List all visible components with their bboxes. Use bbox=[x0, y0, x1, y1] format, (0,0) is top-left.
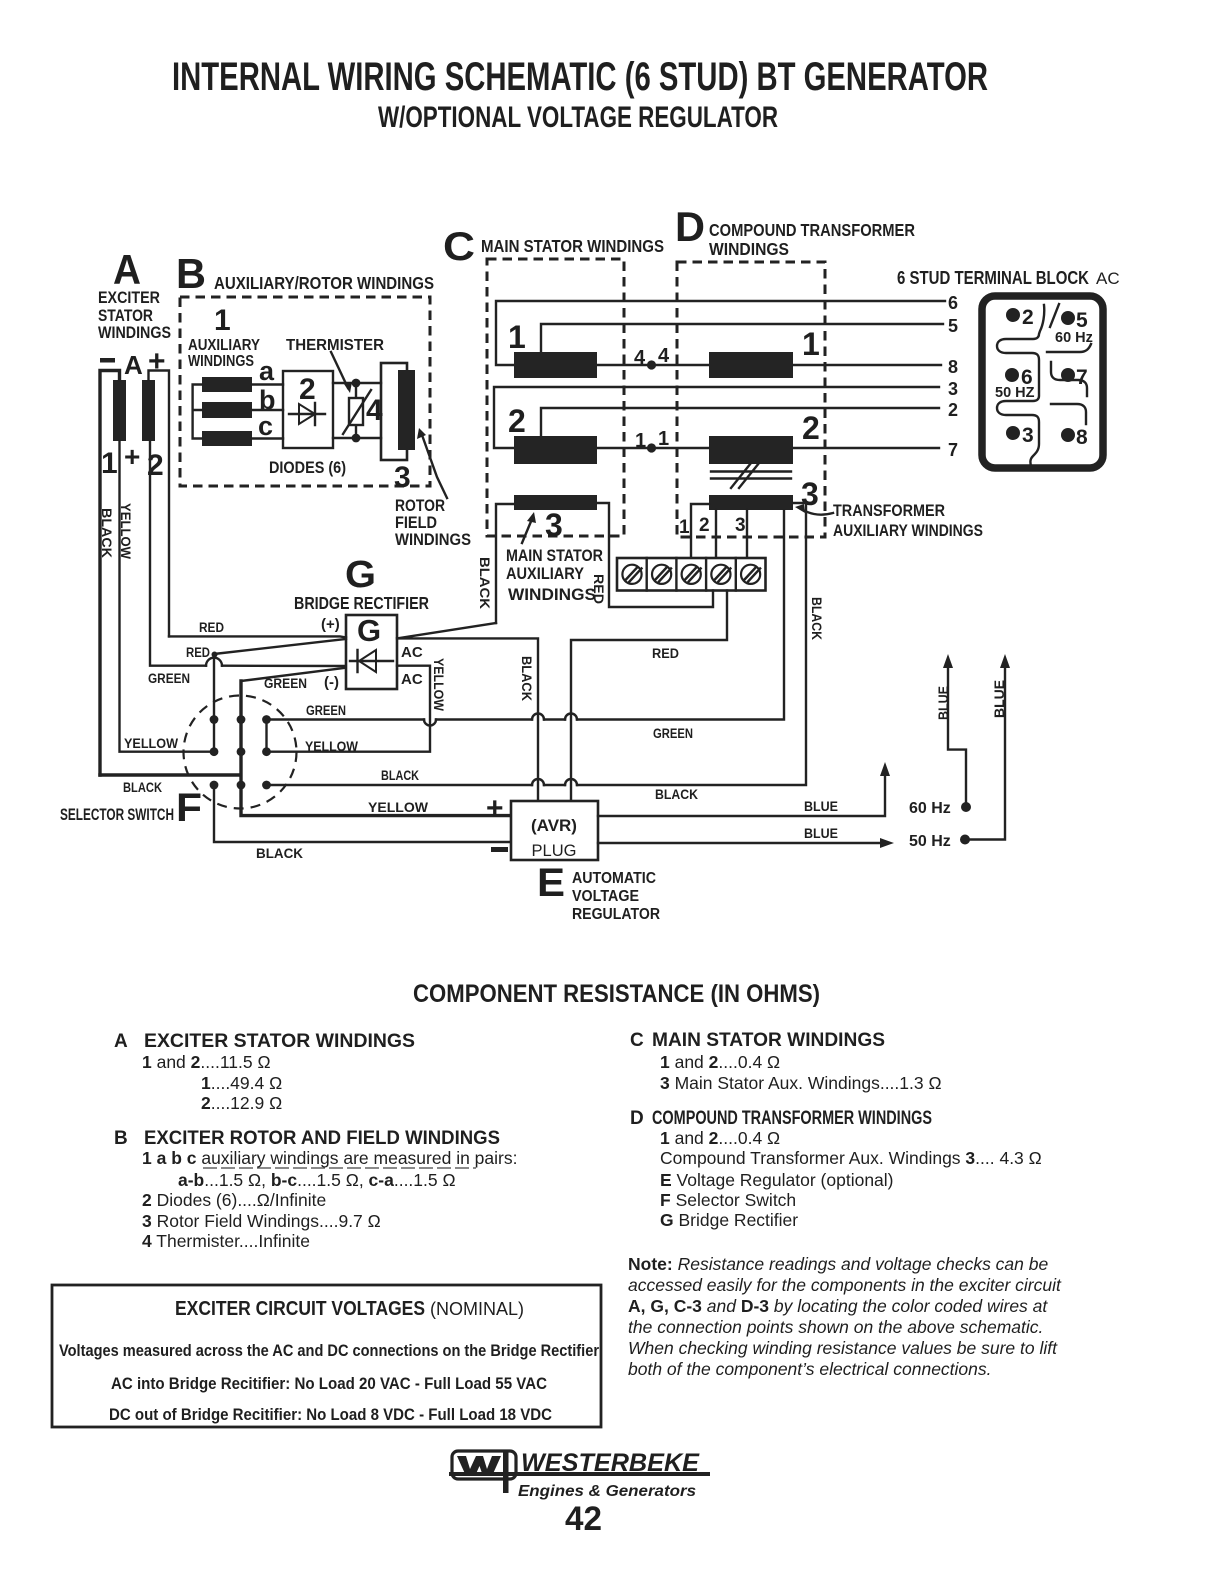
svg-text:YELLOW: YELLOW bbox=[368, 800, 428, 815]
svg-text:D: D bbox=[675, 203, 705, 250]
switch col2 vertical through to AVR plus bbox=[241, 681, 511, 816]
svg-text:BLUE: BLUE bbox=[936, 686, 951, 720]
hop on green wire at x214 bbox=[206, 658, 222, 666]
wire red from C aux right end to strip cell4 bbox=[597, 503, 713, 607]
svg-text:c: c bbox=[258, 411, 273, 441]
svg-text:4: 4 bbox=[658, 345, 670, 367]
svg-text:+: + bbox=[486, 792, 504, 825]
label EXCITER STATOR WINDINGS bbox=[98, 288, 171, 342]
svg-text:AUTOMATIC: AUTOMATIC bbox=[572, 870, 656, 887]
svg-text:PLUG: PLUG bbox=[532, 842, 577, 860]
junction node 4 bbox=[647, 360, 656, 369]
rotor field windings pointer arrow bbox=[422, 435, 447, 498]
svg-text:60 Hz: 60 Hz bbox=[1055, 330, 1093, 346]
svg-text:a-b...1.5 Ω, b-c....1.5 Ω, c-: a-b...1.5 Ω, b-c....1.5 Ω, c-a....1.5 Ω bbox=[178, 1170, 456, 1190]
terminal block channel right branches bbox=[1047, 344, 1091, 352]
wire 8 bbox=[597, 364, 941, 366]
svg-text:AUXILIARY: AUXILIARY bbox=[506, 565, 584, 583]
terminal strip dividers bbox=[647, 558, 736, 591]
main stator aux pointer arrow bbox=[522, 519, 532, 543]
bridge rectifier U box bbox=[346, 615, 397, 689]
svg-text:42: 42 bbox=[565, 1500, 602, 1538]
svg-text:5: 5 bbox=[1076, 309, 1088, 332]
svg-text:BLACK: BLACK bbox=[655, 787, 698, 802]
svg-text:60 Hz: 60 Hz bbox=[909, 800, 951, 817]
svg-text:a: a bbox=[259, 356, 275, 386]
svg-text:A: A bbox=[124, 350, 143, 380]
D3 stub 1 bbox=[691, 504, 709, 558]
svg-text:1: 1 bbox=[679, 517, 690, 538]
note paragraph bbox=[628, 1254, 1062, 1379]
svg-text:4 Thermister....Infinite: 4 Thermister....Infinite bbox=[142, 1231, 310, 1251]
svg-text:3: 3 bbox=[394, 461, 411, 494]
wire yellow from winding1 bottom bbox=[120, 441, 211, 752]
svg-text:C: C bbox=[630, 1030, 644, 1051]
svg-text:AUXILIARY WINDINGS: AUXILIARY WINDINGS bbox=[833, 522, 983, 540]
svg-text:2: 2 bbox=[948, 400, 958, 420]
svg-text:F Selector Switch: F Selector Switch bbox=[660, 1190, 796, 1210]
svg-text:AUXILIARY/ROTOR WINDINGS: AUXILIARY/ROTOR WINDINGS bbox=[214, 273, 434, 293]
node 50Hz bbox=[960, 835, 970, 845]
svg-text:MAIN STATOR: MAIN STATOR bbox=[506, 547, 603, 565]
svg-text:MAIN STATOR WINDINGS: MAIN STATOR WINDINGS bbox=[481, 236, 664, 256]
wire red vertical to switch top-left bbox=[213, 654, 215, 719]
transformer core symbol bbox=[711, 472, 791, 479]
bridge diode symbol bbox=[350, 650, 393, 672]
svg-text:BLUE: BLUE bbox=[804, 799, 838, 814]
transformer aux pointer arrow bbox=[801, 509, 833, 515]
wire black from switch bottom-left to AVR minus bbox=[214, 785, 511, 842]
svg-text:Note: Resistance readings and: Note: Resistance readings and voltage ch… bbox=[628, 1254, 1048, 1274]
svg-text:G Bridge Rectifier: G Bridge Rectifier bbox=[660, 1210, 798, 1230]
wire yellow row from switch col3 to bridge AC2 bbox=[267, 666, 431, 752]
svg-text:REGULATOR: REGULATOR bbox=[572, 906, 660, 923]
svg-text:E: E bbox=[537, 861, 565, 905]
svg-text:6: 6 bbox=[948, 293, 958, 313]
svg-text:(AVR): (AVR) bbox=[531, 816, 577, 835]
svg-text:COMPONENT RESISTANCE (IN OHMS): COMPONENT RESISTANCE (IN OHMS) bbox=[413, 980, 820, 1008]
svg-text:BRIDGE RECTIFIER: BRIDGE RECTIFIER bbox=[294, 593, 429, 613]
svg-text:the connection points shown on: the connection points shown on the above… bbox=[628, 1317, 1043, 1337]
wire bridge AC1 to black vertical and C aux bbox=[397, 623, 538, 801]
svg-text:1 and 2....11.5 Ω: 1 and 2....11.5 Ω bbox=[142, 1052, 271, 1072]
svg-text:C: C bbox=[443, 225, 475, 269]
svg-text:8: 8 bbox=[948, 357, 958, 377]
svg-text:EXCITER CIRCUIT VOLTAGES (NOMI: EXCITER CIRCUIT VOLTAGES (NOMINAL) bbox=[175, 1298, 524, 1320]
stud 6 bbox=[1005, 368, 1019, 382]
svg-text:(+): (+) bbox=[321, 616, 340, 633]
wire green from winding2 bottom bbox=[150, 441, 346, 666]
wires diode box to thermistor and rotor bbox=[333, 383, 381, 438]
auxiliary winding c bar bbox=[202, 431, 252, 446]
node 60Hz bbox=[961, 802, 971, 812]
wire red horizontal into bridge plus bbox=[169, 636, 346, 637]
terminal block channel meander bbox=[997, 305, 1044, 466]
terminal strip box bbox=[617, 558, 766, 591]
auxiliary winding a bar bbox=[202, 377, 252, 392]
AVR plug box bbox=[511, 801, 598, 860]
svg-text:RED: RED bbox=[652, 646, 679, 661]
svg-text:COMPOUND TRANSFORMER WINDINGS: COMPOUND TRANSFORMER WINDINGS bbox=[652, 1108, 932, 1129]
selector switch dashed circle bbox=[184, 696, 297, 809]
junction red bbox=[212, 652, 218, 658]
switch col1 segment bbox=[213, 720, 215, 752]
rotor field winding bar bbox=[398, 370, 415, 450]
svg-text:W/OPTIONAL VOLTAGE REGULATOR: W/OPTIONAL VOLTAGE REGULATOR bbox=[378, 101, 778, 134]
switch col3 segment bbox=[265, 720, 267, 752]
svg-text:8: 8 bbox=[1076, 426, 1088, 449]
main stator winding 2 bar bbox=[514, 436, 597, 464]
logo W glyph bbox=[457, 1456, 501, 1476]
stud 5 bbox=[1061, 311, 1075, 325]
svg-text:BLACK: BLACK bbox=[477, 557, 492, 609]
svg-text:WINDINGS: WINDINGS bbox=[98, 323, 171, 342]
screw 5 bbox=[741, 565, 760, 584]
svg-text:EXCITER STATOR WINDINGS: EXCITER STATOR WINDINGS bbox=[144, 1031, 415, 1052]
svg-text:BLACK: BLACK bbox=[256, 846, 303, 861]
svg-text:accessed easily for the compon: accessed easily for the components in th… bbox=[628, 1275, 1062, 1295]
svg-text:2: 2 bbox=[802, 410, 820, 446]
svg-text:RED: RED bbox=[199, 620, 224, 635]
svg-text:both of the component’s electr: both of the component’s electrical conne… bbox=[628, 1359, 992, 1379]
minus terminal label bbox=[100, 358, 115, 363]
wire 6 bbox=[496, 301, 945, 365]
svg-text:50 HZ: 50 HZ bbox=[995, 385, 1035, 401]
thermistor node bottom bbox=[352, 434, 361, 443]
exciter stator winding 1 (left bar) bbox=[113, 380, 126, 441]
svg-text:BLACK: BLACK bbox=[381, 768, 419, 783]
diode box (diodes 6) bbox=[283, 371, 333, 448]
wire blue 60Hz from AVR bbox=[598, 772, 885, 816]
hop black row at black vert bbox=[532, 779, 544, 785]
svg-text:4: 4 bbox=[634, 347, 646, 369]
wire black from C aux left end down bbox=[496, 504, 514, 623]
svg-text:D: D bbox=[630, 1108, 644, 1129]
D3 stub 2 bbox=[715, 510, 717, 558]
stud 8 bbox=[1061, 428, 1075, 442]
svg-text:GREEN: GREEN bbox=[148, 671, 190, 686]
B dashed box bbox=[180, 297, 430, 486]
svg-text:YELLOW: YELLOW bbox=[124, 736, 178, 751]
svg-text:GREEN: GREEN bbox=[306, 703, 346, 718]
svg-text:E Voltage Regulator (optional): E Voltage Regulator (optional) bbox=[660, 1170, 894, 1190]
thermistor diagonal strike bbox=[343, 390, 371, 434]
svg-text:1....49.4 Ω: 1....49.4 Ω bbox=[201, 1073, 282, 1093]
svg-text:+: + bbox=[148, 345, 166, 378]
hop green row at yellow vert bbox=[424, 720, 436, 726]
wire 2 bbox=[541, 408, 939, 436]
svg-text:DIODES (6): DIODES (6) bbox=[269, 459, 346, 477]
svg-text:COMPOUND TRANSFORMER: COMPOUND TRANSFORMER bbox=[709, 220, 915, 240]
screw 2 bbox=[652, 565, 671, 584]
svg-text:1: 1 bbox=[635, 430, 646, 452]
svg-text:1 a b c auxiliary windings are: 1 a b c auxiliary windings are measured … bbox=[142, 1148, 517, 1168]
screw 3 bbox=[682, 565, 701, 584]
main stator aux winding 3 bar bbox=[514, 495, 597, 510]
svg-text:YELLOW: YELLOW bbox=[118, 503, 133, 559]
rotor field winding bracket bbox=[381, 363, 407, 460]
svg-text:GREEN: GREEN bbox=[653, 726, 693, 741]
svg-text:6 STUD TERMINAL BLOCK: 6 STUD TERMINAL BLOCK bbox=[897, 268, 1089, 288]
svg-text:B: B bbox=[114, 1128, 128, 1149]
svg-text:G: G bbox=[345, 554, 376, 596]
svg-text:3 Rotor Field Windings....9.7: 3 Rotor Field Windings....9.7 Ω bbox=[142, 1211, 381, 1231]
compound transformer aux winding 3 bar bbox=[709, 495, 793, 510]
svg-text:ROTOR: ROTOR bbox=[395, 497, 445, 515]
label ROTOR FIELD WINDINGS bbox=[395, 497, 471, 549]
wire black from winding1 top staple down-left bbox=[100, 371, 120, 776]
compound transformer winding 1 bar bbox=[709, 352, 793, 378]
svg-text:1 and 2....0.4 Ω: 1 and 2....0.4 Ω bbox=[660, 1052, 780, 1072]
svg-text:BLUE: BLUE bbox=[992, 680, 1007, 718]
stud 3 bbox=[1006, 426, 1020, 440]
svg-text:+: + bbox=[124, 441, 140, 472]
label MAIN STATOR AUXILIARY WINDINGS bbox=[506, 547, 603, 604]
svg-text:2: 2 bbox=[1022, 306, 1034, 329]
westerbeke logo flag box bbox=[452, 1451, 516, 1479]
label AUTOMATIC VOLTAGE REGULATOR bbox=[572, 870, 660, 923]
svg-text:3: 3 bbox=[1022, 424, 1034, 447]
svg-text:YELLOW: YELLOW bbox=[431, 658, 446, 711]
svg-text:BLUE: BLUE bbox=[804, 826, 838, 841]
svg-text:(-): (-) bbox=[324, 674, 339, 691]
svg-text:A: A bbox=[114, 1031, 128, 1052]
terminal block body bbox=[982, 296, 1103, 468]
hop green row at red vert bbox=[565, 714, 577, 720]
svg-text:BLACK: BLACK bbox=[99, 508, 114, 558]
svg-text:AC: AC bbox=[1096, 269, 1120, 288]
left connector joining a b c bbox=[193, 385, 202, 439]
svg-text:2....12.9 Ω: 2....12.9 Ω bbox=[201, 1093, 282, 1113]
stud 2 bbox=[1006, 308, 1020, 322]
svg-text:2 Diodes (6)....Ω/Infinite: 2 Diodes (6)....Ω/Infinite bbox=[142, 1190, 326, 1210]
svg-text:When checking winding resistan: When checking winding resistance values … bbox=[628, 1338, 1058, 1358]
compound transformer winding 2 bar bbox=[709, 436, 793, 464]
diode symbol inside box bbox=[289, 403, 325, 425]
auxiliary winding b bar bbox=[202, 402, 252, 418]
svg-text:1: 1 bbox=[101, 447, 118, 480]
wire blue 50Hz from AVR bbox=[598, 842, 884, 844]
wire red staple from winding2 top bbox=[149, 371, 170, 637]
svg-text:50 Hz: 50 Hz bbox=[909, 833, 951, 850]
svg-text:3: 3 bbox=[735, 515, 746, 536]
svg-text:B: B bbox=[176, 250, 206, 297]
svg-text:3: 3 bbox=[948, 379, 958, 399]
svg-text:DC out of Bridge Recitifier:: DC out of Bridge Recitifier: No Load 8 V… bbox=[109, 1406, 552, 1424]
svg-text:3 Main Stator Aux. Windings...: 3 Main Stator Aux. Windings....1.3 Ω bbox=[660, 1073, 942, 1093]
svg-text:INTERNAL WIRING SCHEMATIC (6 S: INTERNAL WIRING SCHEMATIC (6 STUD) BT GE… bbox=[172, 55, 988, 99]
svg-text:1 and 2....0.4 Ω: 1 and 2....0.4 Ω bbox=[660, 1128, 780, 1148]
svg-text:7: 7 bbox=[948, 440, 958, 460]
wire black from A1 to switch col2 bbox=[100, 773, 239, 776]
svg-text:WINDINGS: WINDINGS bbox=[709, 239, 789, 259]
screw 4 bbox=[711, 565, 730, 584]
switch contact dots bbox=[210, 715, 219, 724]
D3 stub 3 bbox=[746, 510, 748, 558]
logo pole bbox=[503, 1451, 509, 1493]
svg-text:3: 3 bbox=[545, 507, 563, 543]
C dashed box bbox=[487, 259, 624, 536]
svg-text:Compound Transformer Aux. Wind: Compound Transformer Aux. Windings 3....… bbox=[660, 1148, 1042, 1168]
hop black row at red vert bbox=[565, 779, 577, 785]
svg-text:SELECTOR SWITCH: SELECTOR SWITCH bbox=[60, 806, 174, 824]
svg-text:YELLOW: YELLOW bbox=[305, 739, 358, 754]
svg-text:WINDINGS: WINDINGS bbox=[508, 586, 596, 604]
wire blue 50Hz up bbox=[965, 664, 1005, 840]
wire red diagonal from switch to bridge plus bbox=[214, 639, 346, 654]
svg-text:2: 2 bbox=[699, 515, 710, 536]
svg-text:Voltages measured across the A: Voltages measured across the AC and DC c… bbox=[59, 1342, 600, 1360]
svg-text:5: 5 bbox=[948, 316, 958, 336]
svg-text:1: 1 bbox=[214, 304, 231, 337]
svg-text:WINDINGS: WINDINGS bbox=[395, 531, 471, 549]
svg-text:MAIN STATOR WINDINGS: MAIN STATOR WINDINGS bbox=[652, 1030, 885, 1051]
wires a b c to diode box bbox=[252, 385, 283, 439]
exciter circuit voltages box bbox=[52, 1285, 601, 1427]
svg-text:FIELD: FIELD bbox=[395, 514, 437, 532]
hop green row at black vert bbox=[532, 714, 544, 720]
svg-text:AUXILIARY: AUXILIARY bbox=[188, 337, 260, 354]
svg-text:G: G bbox=[357, 613, 381, 648]
svg-text:TRANSFORMER: TRANSFORMER bbox=[833, 502, 945, 520]
thermistor node top bbox=[352, 379, 361, 388]
wire black row from switch col3 to D3 right bbox=[267, 503, 807, 785]
wire blue 60Hz up bbox=[948, 664, 966, 807]
svg-text:Engines & Generators: Engines & Generators bbox=[518, 1483, 696, 1500]
wire 5 bbox=[541, 324, 943, 353]
svg-text:1: 1 bbox=[802, 326, 820, 362]
svg-text:EXCITER: EXCITER bbox=[98, 288, 160, 307]
svg-text:A: A bbox=[113, 246, 141, 293]
svg-text:BLACK: BLACK bbox=[809, 597, 824, 640]
svg-text:1: 1 bbox=[508, 319, 526, 355]
D dashed box bbox=[677, 262, 825, 537]
wire 3 bbox=[494, 387, 939, 448]
svg-text:RED: RED bbox=[186, 645, 210, 660]
label TRANSFORMER AUXILIARY WINDINGS bbox=[833, 502, 983, 540]
svg-text:2: 2 bbox=[299, 373, 316, 406]
svg-text:2: 2 bbox=[508, 403, 526, 439]
svg-text:AC into Bridge Recitifier: No: AC into Bridge Recitifier: No Load 20 VA… bbox=[111, 1375, 547, 1393]
junction node 1 bbox=[647, 443, 656, 452]
svg-text:THERMISTER: THERMISTER bbox=[286, 337, 384, 354]
svg-text:AC: AC bbox=[401, 644, 423, 661]
main stator winding 1 bar bbox=[514, 352, 597, 378]
terminal block top slash bbox=[1050, 304, 1059, 327]
svg-text:AC: AC bbox=[401, 671, 423, 688]
wire green row from switch col3 to D3 bbox=[267, 510, 785, 720]
thermistor 4 body bbox=[355, 383, 357, 438]
svg-text:GREEN: GREEN bbox=[264, 676, 307, 691]
wire red from strip cell4 down to AVR top bbox=[571, 591, 727, 802]
svg-text:WINDINGS: WINDINGS bbox=[188, 353, 254, 370]
wire 7 bbox=[597, 447, 939, 449]
svg-text:A, G, C-3 and D-3 by locating: A, G, C-3 and D-3 by locating the color … bbox=[628, 1296, 1048, 1316]
svg-text:VOLTAGE: VOLTAGE bbox=[572, 888, 639, 905]
logo underline bbox=[449, 1472, 710, 1476]
wire green diagonal from switch col2 to bridge minus bbox=[241, 668, 344, 681]
label minus AVR bbox=[491, 847, 508, 852]
svg-text:EXCITER ROTOR AND FIELD WINDIN: EXCITER ROTOR AND FIELD WINDINGS bbox=[144, 1128, 500, 1149]
stud 7 bbox=[1061, 368, 1075, 382]
svg-text:F: F bbox=[176, 786, 202, 830]
exciter stator winding 2 (right bar) bbox=[142, 380, 155, 441]
thermister pointer arrow bbox=[331, 352, 348, 388]
svg-text:BLACK: BLACK bbox=[123, 780, 162, 795]
svg-text:BLACK: BLACK bbox=[519, 656, 534, 701]
screw 1 bbox=[622, 565, 641, 584]
svg-text:1: 1 bbox=[658, 428, 669, 450]
